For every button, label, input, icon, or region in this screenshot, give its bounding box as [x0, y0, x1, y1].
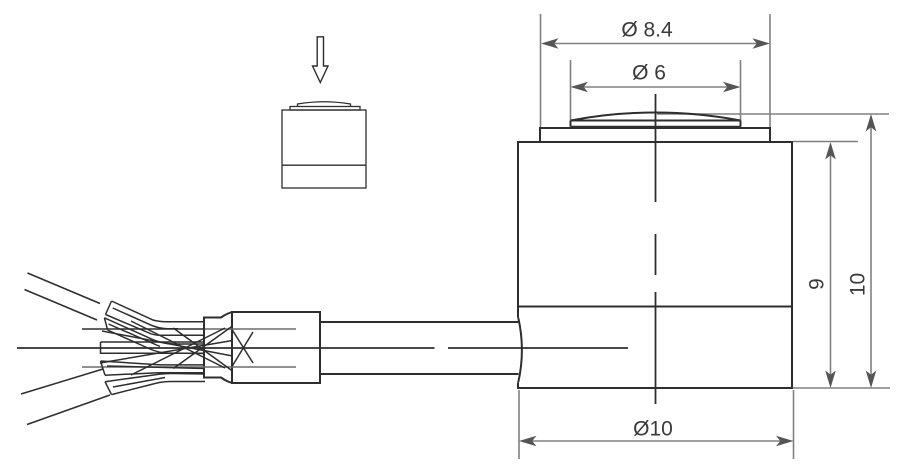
svg-text:Ø 6: Ø 6: [632, 62, 666, 85]
svg-text:10: 10: [847, 273, 870, 296]
svg-text:Ø 8.4: Ø 8.4: [621, 19, 673, 42]
svg-text:Ø10: Ø10: [633, 418, 673, 441]
svg-text:9: 9: [806, 278, 829, 290]
